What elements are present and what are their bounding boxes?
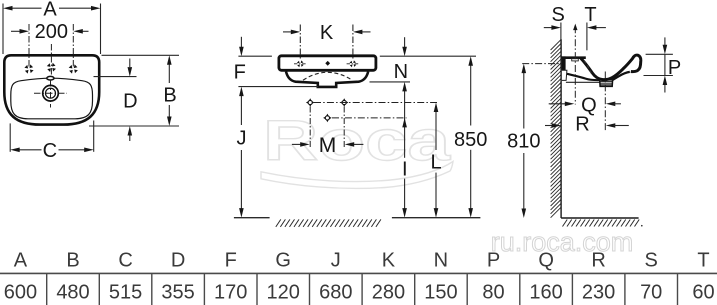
floor line side view [561, 217, 639, 219]
svg-text:J: J [331, 250, 341, 272]
svg-text:ru.roca.com: ru.roca.com [491, 227, 634, 257]
dimension Q [549, 103, 567, 105]
tap mark centre (diamond) [325, 61, 330, 66]
svg-text:B: B [163, 84, 176, 106]
svg-text:M: M [319, 134, 337, 157]
dimension 200 [11, 30, 89, 32]
dimension A [3, 4, 101, 55]
fixing hole centre lines [310, 103, 437, 149]
fixing hole centre line (vertical) [574, 26, 576, 104]
fixing hole upper-right [340, 98, 349, 107]
dimension D [94, 59, 137, 142]
basin back lower part [562, 70, 567, 80]
dimension R [545, 125, 554, 127]
siphon cover line [566, 81, 600, 83]
svg-text:150: 150 [424, 282, 457, 304]
svg-text:L: L [430, 152, 441, 174]
svg-text:850: 850 [454, 129, 487, 151]
top reference line (F / 850) [238, 55, 272, 57]
svg-text:60: 60 [692, 282, 714, 304]
table header/value separator line [0, 272, 717, 274]
svg-text:280: 280 [372, 282, 405, 304]
svg-text:480: 480 [56, 282, 89, 304]
hidden bowl arc (dashed) [303, 72, 352, 80]
dimension T [586, 23, 588, 51]
wall hatching [551, 40, 561, 218]
svg-text:810: 810 [507, 131, 540, 153]
svg-text:230: 230 [582, 282, 615, 304]
dimension B [89, 55, 179, 126]
svg-text:R: R [591, 250, 605, 272]
svg-text:C: C [118, 250, 132, 272]
basin back mounting block [562, 56, 566, 70]
dimension K [283, 25, 371, 61]
tap hole cross centre [47, 63, 56, 72]
bottom reference line F/J [238, 86, 318, 88]
svg-text:P: P [487, 250, 500, 272]
svg-text:N: N [394, 61, 408, 83]
dimension C [10, 121, 94, 152]
dimension S [560, 23, 562, 46]
svg-text:T: T [584, 4, 596, 26]
tap hole channel [572, 59, 579, 61]
dimension P [644, 37, 673, 92]
svg-text:680: 680 [319, 282, 352, 304]
dimension 810 [522, 63, 561, 65]
bowl profile and front rim bulge [581, 55, 641, 80]
tap hole cross right [69, 64, 78, 73]
floor hatching middle view [276, 219, 381, 227]
svg-text:515: 515 [109, 282, 142, 304]
svg-text:B: B [66, 250, 79, 272]
svg-text:D: D [123, 91, 137, 113]
svg-text:S: S [645, 250, 658, 272]
svg-text:I: I [402, 158, 408, 180]
svg-text:S: S [552, 4, 565, 26]
drain outer circle [43, 85, 59, 101]
dimension M [292, 143, 364, 145]
dimension F [240, 37, 242, 47]
dimension L [435, 111, 437, 209]
svg-text:K: K [382, 250, 396, 272]
tap mark right (front) [350, 60, 357, 67]
svg-text:170: 170 [214, 282, 247, 304]
svg-text:R: R [575, 113, 589, 135]
tap hole cross left [24, 64, 33, 73]
svg-text:D: D [171, 250, 185, 272]
dimension 850 [470, 65, 472, 210]
svg-text:C: C [43, 140, 57, 162]
svg-text:Roca: Roca [263, 109, 452, 173]
svg-text:A: A [43, 0, 57, 20]
svg-text:160: 160 [529, 282, 562, 304]
hidden overflow channel (dashed) [584, 61, 592, 75]
dimension J [240, 95, 242, 209]
bottom reference line N [370, 81, 411, 83]
svg-text:A: A [14, 250, 28, 272]
deck top line [562, 56, 586, 59]
drain inner circle [46, 88, 56, 98]
drain centre mark [34, 80, 67, 108]
drain threaded block [600, 80, 613, 87]
tap hole centre lines [29, 24, 73, 77]
svg-text:120: 120 [267, 282, 300, 304]
table values [4, 282, 715, 304]
svg-text:K: K [320, 22, 334, 44]
svg-text:80: 80 [482, 282, 504, 304]
overflow hole [47, 76, 54, 80]
floor hatching side view [563, 220, 643, 227]
svg-text:N: N [434, 250, 448, 272]
fixing hole lower-centre [323, 114, 332, 123]
rim band [279, 56, 376, 71]
lower contour with drain tab [286, 72, 368, 87]
svg-text:F: F [234, 61, 246, 83]
svg-text:P: P [668, 57, 681, 79]
tap mark left (front) [297, 60, 304, 67]
svg-text:600: 600 [4, 282, 37, 304]
bowl underside left [567, 74, 600, 80]
drain centre line [604, 72, 606, 132]
shared arrowhead S/T [573, 24, 577, 31]
floor line middle view [234, 217, 270, 219]
table header letters [14, 250, 710, 272]
svg-text:200: 200 [35, 21, 68, 43]
svg-text:J: J [237, 128, 247, 150]
svg-text:T: T [697, 250, 709, 272]
fixing hole upper-left [306, 98, 315, 107]
wall face line [560, 39, 562, 218]
svg-text:Q: Q [538, 250, 554, 272]
basin inner bowl (plan) [11, 78, 93, 119]
svg-text:355: 355 [161, 282, 194, 304]
svg-text:G: G [275, 250, 291, 272]
svg-text:F: F [225, 250, 237, 272]
watermark Roca logo [261, 109, 453, 188]
table column separators [47, 273, 678, 305]
svg-text:70: 70 [640, 282, 662, 304]
basin outer outline (plan) [4, 55, 99, 124]
dimension N and I [404, 37, 406, 209]
bowl underside right [613, 72, 630, 80]
